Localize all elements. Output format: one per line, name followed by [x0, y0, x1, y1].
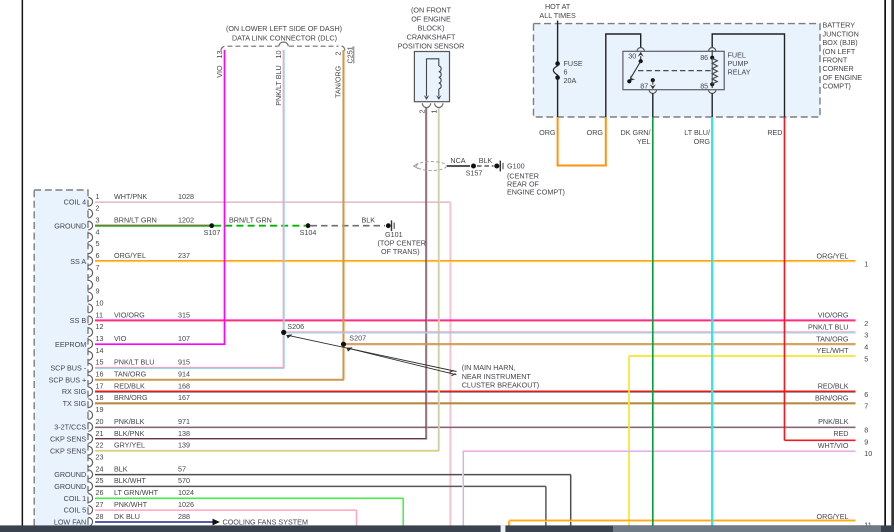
svg-text:138: 138 [178, 429, 190, 438]
sensor pin 1 socket [435, 103, 443, 107]
svg-text:SCP BUS +: SCP BUS + [49, 375, 87, 384]
TAN/ORG wire label [334, 65, 343, 98]
svg-text:168: 168 [178, 381, 190, 390]
svg-text:ORG/YEL: ORG/YEL [114, 251, 146, 260]
svg-text:BLK: BLK [114, 464, 128, 473]
pin 7 of PCM connector [88, 263, 99, 277]
DLC connector bracket [221, 42, 345, 51]
pin 24 of PCM connector [54, 464, 186, 479]
svg-text:2: 2 [864, 319, 868, 328]
svg-text:RED/BLK: RED/BLK [818, 382, 849, 391]
pin 16 of PCM connector [49, 370, 190, 385]
svg-text:GROUND: GROUND [54, 221, 86, 230]
svg-text:1: 1 [430, 110, 439, 114]
pin 8 of PCM connector [88, 275, 99, 289]
svg-text:LOW FAN: LOW FAN [54, 518, 86, 527]
svg-text:S107: S107 [204, 228, 221, 237]
svg-text:BLOCK): BLOCK) [418, 24, 445, 33]
svg-text:VIO: VIO [114, 334, 127, 343]
svg-text:POSITION SENSOR: POSITION SENSOR [398, 42, 465, 51]
pin 10 of PCM connector [88, 298, 103, 312]
wire BLK/PNK 138 (pin 21 to crankshaft sensor pin 2) [95, 107, 427, 440]
wire DK BLU 288 (pin 28 to cooling fans system) [95, 518, 308, 527]
svg-text:13: 13 [215, 51, 224, 59]
svg-text:(ON FRONT: (ON FRONT [411, 5, 452, 14]
svg-text:8: 8 [96, 275, 100, 284]
svg-text:CORNER: CORNER [823, 64, 854, 73]
wire VIO/ORG 315 (pin 11 to right edge 2) [95, 320, 856, 321]
svg-text:22: 22 [96, 441, 104, 450]
svg-text:ALL TIMES: ALL TIMES [539, 11, 576, 20]
wire LT GRN/WHT 1024 (pin 26 to off-page bottom) [95, 498, 403, 526]
svg-text:(ON LEFT: (ON LEFT [823, 47, 856, 56]
relay coil link (dashed) [638, 70, 712, 72]
svg-text:BLK/WHT: BLK/WHT [114, 476, 147, 485]
svg-text:315: 315 [178, 310, 190, 319]
svg-text:107: 107 [178, 334, 190, 343]
wire BLK 57 (pin 24 to off-page bottom) [95, 475, 571, 526]
svg-text:18: 18 [96, 393, 104, 402]
svg-text:GROUND: GROUND [54, 470, 86, 479]
relay coil [712, 58, 717, 85]
svg-text:PNK/BLK: PNK/BLK [818, 417, 849, 426]
svg-text:2: 2 [96, 204, 100, 213]
svg-text:25: 25 [96, 476, 104, 485]
pin 27 of PCM connector [64, 500, 194, 515]
relay pin 85 terminal [700, 81, 716, 93]
wire PNK/BLK 971 (pin 20 to right edge 8) [95, 427, 856, 428]
svg-text:3-2T/CCS: 3-2T/CCS [54, 423, 86, 432]
DLC pin 13 number [215, 51, 224, 59]
svg-text:10: 10 [864, 449, 872, 458]
svg-text:30: 30 [628, 52, 636, 61]
pin 5 of PCM connector [88, 239, 99, 253]
right window edge strip [891, 0, 894, 532]
wire BLK/WHT 570 (pin 25 to off-page bottom) [95, 486, 546, 526]
sensor pin 2 arrow [424, 95, 429, 100]
pin 11 of PCM connector [70, 310, 190, 325]
wire GRY/YEL 139 (pin 22 to crankshaft sensor pin 1) [95, 107, 439, 451]
svg-text:4: 4 [864, 343, 868, 352]
off-page connector 3 (PNK/LT BLU) [808, 323, 868, 340]
svg-text:SCP BUS -: SCP BUS - [50, 364, 86, 373]
wire BRN/LT GRN (S107 to S104, dashed) [214, 216, 306, 226]
PNK/LT BLU wire label [274, 65, 283, 105]
svg-text:3: 3 [864, 331, 868, 340]
svg-text:FRONT: FRONT [823, 56, 848, 65]
pin 18 of PCM connector [63, 393, 190, 408]
sensor pin 1 arrow [436, 95, 441, 100]
BJB internal wiring [606, 34, 785, 117]
svg-text:2: 2 [334, 52, 343, 56]
svg-text:16: 16 [96, 370, 104, 379]
pin 1 of PCM connector [64, 192, 194, 207]
svg-text:TAN/ORG: TAN/ORG [334, 65, 343, 98]
svg-text:TAN/ORG: TAN/ORG [816, 334, 849, 343]
pin 4 of PCM connector [88, 227, 99, 241]
svg-text:PNK/LT BLU: PNK/LT BLU [808, 323, 848, 332]
svg-text:GROUND: GROUND [54, 482, 86, 491]
BJB label [823, 21, 863, 91]
off-page connector 8 (PNK/BLK) [818, 417, 868, 434]
svg-text:5: 5 [96, 239, 100, 248]
svg-text:23: 23 [96, 453, 104, 462]
off-page connector 7 (BRN/ORG) [815, 394, 868, 411]
svg-text:14: 14 [96, 346, 104, 355]
fuse 6 20A [553, 59, 583, 85]
wire PNK/WHT 1026 (pin 27 to off-page bottom) [95, 510, 357, 526]
svg-text:4: 4 [96, 227, 100, 236]
svg-text:BLK: BLK [479, 156, 493, 165]
sensor pin 1 label [430, 110, 439, 114]
pin 13 of PCM connector [55, 334, 190, 349]
svg-text:PNK/LT BLU: PNK/LT BLU [274, 65, 283, 105]
svg-text:1: 1 [864, 260, 868, 269]
svg-text:915: 915 [178, 358, 190, 367]
svg-text:26: 26 [96, 488, 104, 497]
svg-text:BATTERY: BATTERY [823, 21, 856, 30]
sensor pin 2 socket [422, 103, 430, 107]
svg-text:S157: S157 [466, 168, 483, 177]
connector C251 label [346, 46, 355, 63]
svg-text:COIL 1: COIL 1 [64, 494, 87, 503]
svg-text:YEL: YEL [637, 137, 651, 146]
svg-text:57: 57 [178, 464, 186, 473]
svg-text:1: 1 [96, 192, 100, 201]
shield chevron [414, 163, 419, 168]
svg-text:20: 20 [96, 417, 104, 426]
svg-text:9: 9 [96, 287, 100, 296]
pin 22 of PCM connector [50, 441, 190, 456]
svg-text:167: 167 [178, 393, 190, 402]
wire BRN/LT GRN 1202 (pin 3 to S107) [95, 225, 212, 226]
svg-text:CLUSTER BREAKOUT): CLUSTER BREAKOUT) [462, 380, 539, 389]
svg-text:BRN/LT GRN: BRN/LT GRN [229, 216, 272, 225]
svg-text:COIL 5: COIL 5 [64, 506, 87, 515]
wire label LT BLU/ORG [684, 128, 710, 146]
svg-text:6: 6 [864, 390, 868, 399]
svg-text:139: 139 [178, 441, 190, 450]
callout arrow to S207 [346, 347, 456, 374]
svg-text:CRANKSHAFT: CRANKSHAFT [407, 33, 456, 42]
pin 3 of PCM connector [54, 216, 194, 231]
svg-text:15: 15 [96, 358, 104, 367]
svg-text:914: 914 [178, 370, 190, 379]
DLC pin 10 number [274, 51, 283, 59]
svg-text:GRY/YEL: GRY/YEL [114, 441, 145, 450]
off-page connector 11 (ORG/YEL) [817, 512, 872, 529]
svg-text:21: 21 [96, 429, 104, 438]
svg-text:8: 8 [864, 425, 868, 434]
svg-text:DATA LINK CONNECTOR (DLC): DATA LINK CONNECTOR (DLC) [232, 33, 337, 42]
svg-text:1024: 1024 [178, 488, 194, 497]
svg-text:BOX (BJB): BOX (BJB) [823, 38, 858, 47]
wire RED (relay 86 to right edge 9) [785, 117, 856, 440]
wire VIO 107 (pin 13 to DLC pin 13) [95, 50, 225, 344]
svg-text:RED/BLK: RED/BLK [114, 381, 145, 390]
svg-text:VIO: VIO [215, 65, 224, 78]
svg-text:TAN/ORG: TAN/ORG [114, 370, 147, 379]
crankshaft sensor caption [398, 5, 465, 50]
svg-text:19: 19 [96, 405, 104, 414]
pin 26 of PCM connector [64, 488, 194, 503]
splice S157 [466, 164, 483, 178]
fuel pump relay box [623, 51, 724, 89]
relay pin 30 terminal [628, 48, 644, 64]
svg-text:17: 17 [96, 381, 104, 390]
svg-text:86: 86 [700, 53, 708, 62]
svg-text:RED: RED [833, 429, 848, 438]
svg-text:CKP SENS: CKP SENS [50, 447, 86, 456]
wire label DK GRN/YEL [621, 128, 651, 146]
svg-text:288: 288 [178, 512, 190, 521]
relay switch blade [627, 61, 641, 83]
svg-text:BRN/ORG: BRN/ORG [114, 393, 148, 402]
wire LT BLU/ORG (relay 85 down off-page) [711, 117, 712, 526]
svg-text:YEL/WHT: YEL/WHT [817, 346, 850, 355]
scrollbar gap [501, 525, 506, 532]
wire ORG/YEL 237 (pin 6 to right edge 1) [95, 261, 856, 262]
svg-text:NCA: NCA [450, 156, 465, 165]
wire fuse output (to BJB edge) [557, 78, 559, 117]
pin 9 of PCM connector [88, 287, 99, 301]
svg-text:TX SIG: TX SIG [63, 399, 87, 408]
off-page connector 1 (ORG/YEL) [817, 251, 869, 268]
right window border line [884, 0, 886, 532]
svg-text:HOT AT: HOT AT [545, 2, 571, 11]
wire WHT/VIO (to right edge 10, from off-page bottom) [462, 450, 855, 526]
off-page connector 2 (VIO/ORG) [818, 311, 869, 328]
svg-text:ORG/YEL: ORG/YEL [817, 512, 849, 521]
svg-text:1202: 1202 [178, 216, 194, 225]
svg-text:87: 87 [640, 81, 648, 90]
svg-text:27: 27 [96, 500, 104, 509]
svg-text:RX SIG: RX SIG [62, 387, 87, 396]
pin 23 of PCM connector [88, 453, 103, 467]
svg-text:BRN/LT GRN: BRN/LT GRN [114, 216, 157, 225]
svg-text:OF ENGINE: OF ENGINE [823, 73, 863, 82]
svg-text:BLK/PNK: BLK/PNK [114, 429, 145, 438]
svg-text:20A: 20A [564, 76, 577, 85]
relay pin 87 terminal [640, 78, 656, 93]
svg-text:WHT/VIO: WHT/VIO [818, 441, 849, 450]
pin 14 of PCM connector [88, 346, 103, 360]
callout arrow to S206 [286, 334, 456, 371]
svg-text:237: 237 [178, 251, 190, 260]
off-page connector 9 (RED) [833, 429, 868, 446]
wire hot feed into fuse [557, 21, 559, 64]
svg-text:DK BLU: DK BLU [114, 512, 140, 521]
wire label RED [767, 128, 782, 137]
battery junction box (BJB) [534, 24, 821, 117]
VIO wire label [215, 65, 224, 78]
svg-text:LT GRN/WHT: LT GRN/WHT [114, 488, 159, 497]
svg-text:24: 24 [96, 464, 104, 473]
off-page connector 10 (WHT/VIO) [818, 441, 873, 458]
svg-text:1026: 1026 [178, 500, 194, 509]
svg-text:13: 13 [96, 334, 104, 343]
ground G100 [494, 161, 565, 197]
svg-text:G101: G101 [385, 230, 403, 239]
ground G101 [378, 220, 426, 256]
svg-text:10: 10 [274, 51, 283, 59]
svg-text:S104: S104 [300, 228, 317, 237]
pin 12 of PCM connector [88, 322, 103, 336]
svg-text:CKP SENS: CKP SENS [50, 435, 86, 444]
svg-text:PNK/WHT: PNK/WHT [114, 500, 148, 509]
svg-text:BLK: BLK [362, 216, 376, 225]
svg-text:(ON LOWER LEFT SIDE OF DASH): (ON LOWER LEFT SIDE OF DASH) [226, 24, 342, 33]
callout text (IN MAIN HARN...) [462, 363, 539, 389]
wire BRN/ORG 167 (pin 18 to right edge 7) [95, 403, 856, 404]
svg-text:9: 9 [864, 437, 868, 446]
svg-text:11: 11 [96, 310, 103, 319]
splice S107 [204, 223, 221, 237]
wire PNK/LT BLU 915 (pin 15 to DLC pin 10) [95, 50, 284, 368]
svg-text:ORG: ORG [539, 128, 556, 137]
svg-text:BRN/ORG: BRN/ORG [815, 394, 849, 403]
svg-text:S206: S206 [287, 322, 304, 331]
wire TAN/ORG 914 (pin 16 to DLC pin 2) [95, 50, 344, 381]
svg-text:1028: 1028 [178, 192, 194, 201]
wire label ORG (fuse side) [539, 128, 556, 137]
svg-text:6: 6 [96, 251, 100, 260]
svg-text:C251: C251 [346, 46, 355, 63]
svg-text:10: 10 [96, 298, 104, 307]
svg-text:85: 85 [700, 81, 708, 90]
svg-text:3: 3 [96, 216, 100, 225]
svg-text:COIL 4: COIL 4 [64, 198, 87, 207]
svg-text:SS A: SS A [70, 257, 86, 266]
svg-text:570: 570 [178, 476, 190, 485]
PCM connector C175 box [34, 190, 88, 532]
svg-text:28: 28 [96, 512, 104, 521]
scrollbar thumb [613, 526, 881, 532]
svg-text:G100: G100 [507, 162, 525, 171]
pin 15 of PCM connector [50, 358, 190, 373]
svg-text:DK GRN/: DK GRN/ [621, 128, 651, 137]
callout tick [450, 370, 456, 376]
wire NCA (shield to S157) [447, 156, 470, 166]
pin 20 of PCM connector [54, 417, 190, 432]
splice S104 [300, 223, 317, 237]
DLC pin 2 number [334, 52, 343, 56]
svg-text:RED: RED [767, 128, 782, 137]
relay pin 86 terminal [700, 48, 716, 62]
svg-text:7: 7 [864, 402, 868, 411]
splice S206 [281, 322, 304, 335]
svg-text:VIO/ORG: VIO/ORG [818, 311, 849, 320]
pin 21 of PCM connector [50, 429, 190, 444]
svg-text:ORG: ORG [694, 137, 711, 146]
wire DK GRN/YEL (relay 87 down off-page) [652, 117, 654, 526]
DLC caption [226, 24, 342, 42]
wire label ORG (relay 30 side) [587, 128, 604, 137]
sensor coil element [427, 59, 442, 96]
sensor pin 2 label [417, 110, 426, 114]
svg-text:5: 5 [864, 354, 868, 363]
svg-text:WHT/PNK: WHT/PNK [114, 192, 147, 201]
svg-text:PNK/BLK: PNK/BLK [114, 417, 145, 426]
pin 25 of PCM connector [54, 476, 190, 491]
splice S207 [341, 334, 366, 347]
pin 28 of PCM connector [54, 512, 190, 527]
wire WHT/PNK 1028 (pin 1 to off-page bottom) [95, 201, 451, 526]
svg-text:OF TRANS): OF TRANS) [381, 247, 420, 256]
crankshaft position sensor box [414, 52, 449, 102]
svg-text:PNK/LT BLU: PNK/LT BLU [114, 358, 154, 367]
svg-text:VIO/ORG: VIO/ORG [114, 310, 145, 319]
svg-text:12: 12 [96, 322, 104, 331]
pin 6 of PCM connector [70, 251, 190, 266]
svg-text:SS B: SS B [70, 316, 87, 325]
svg-text:JUNCTION: JUNCTION [823, 29, 859, 38]
bottom scrollbar track [0, 525, 894, 532]
svg-text:S207: S207 [349, 334, 366, 343]
svg-text:ORG/YEL: ORG/YEL [817, 251, 849, 260]
svg-text:2: 2 [417, 110, 426, 114]
wire RED/BLK 168 (pin 17 to right edge 6) [95, 391, 856, 392]
svg-text:COOLING FANS SYSTEM: COOLING FANS SYSTEM [223, 518, 308, 527]
pin 19 of PCM connector [88, 405, 103, 419]
wire ORG/YEL (to right edge 11, from off-page bottom) [509, 520, 856, 526]
HOT AT ALL TIMES label [539, 2, 576, 20]
wire PNK/LT BLU (S206 to right edge 3) [284, 332, 856, 333]
wire BLK (S104 to G101, dashed) [311, 216, 386, 226]
svg-text:COMPT): COMPT) [823, 82, 851, 91]
svg-text:OF ENGINE: OF ENGINE [411, 14, 451, 23]
svg-text:971: 971 [178, 417, 190, 426]
wire YEL/WHT (to right edge 5, from off-page bottom) [629, 356, 856, 526]
shield ellipse [417, 162, 447, 171]
wire TAN/ORG (S207 to right edge 4) [344, 344, 856, 345]
wire BLK (S157 to G100, dashed) [477, 156, 494, 166]
pin 17 of PCM connector [62, 381, 190, 396]
off-page connector 4 (TAN/ORG) [816, 334, 868, 351]
svg-text:7: 7 [96, 263, 100, 272]
svg-text:LT BLU/: LT BLU/ [684, 128, 710, 137]
svg-text:RELAY: RELAY [728, 68, 751, 77]
svg-text:ENGINE COMPT): ENGINE COMPT) [507, 187, 565, 196]
wire ORG (fuse to relay 30, U-link) [558, 117, 606, 166]
svg-text:ORG: ORG [587, 128, 604, 137]
left window border [22, 0, 24, 532]
svg-text:EEPROM: EEPROM [55, 340, 86, 349]
pin 2 of PCM connector [88, 204, 99, 218]
off-page connector 6 (RED/BLK) [818, 382, 869, 399]
off-page connector 5 (YEL/WHT) [817, 346, 869, 363]
